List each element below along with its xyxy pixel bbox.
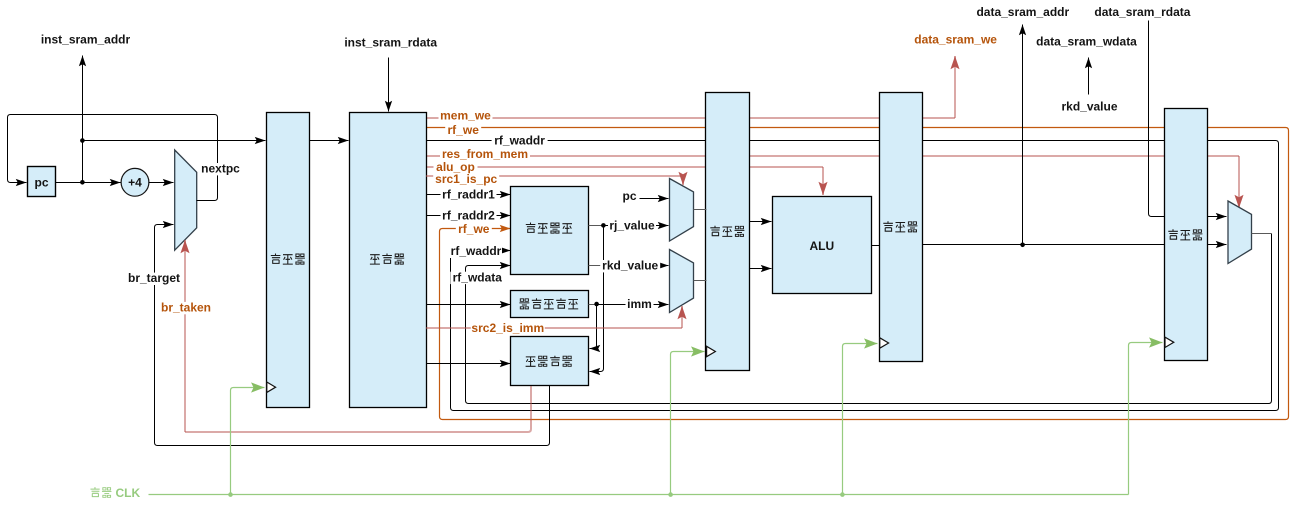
wire br_target into mux bbox=[155, 225, 550, 446]
svg-text:rf_waddr: rf_waddr bbox=[494, 134, 545, 148]
wire decoder to branch unit bbox=[427, 363, 511, 365]
svg-text:data_sram_wdata: data_sram_wdata bbox=[1036, 35, 1137, 49]
wire imm to mux src2 bbox=[589, 304, 598, 306]
node pc out junction bbox=[80, 180, 85, 185]
svg-text:res_from_mem: res_from_mem bbox=[442, 147, 528, 161]
wire clock to EX/MEM bbox=[843, 344, 878, 495]
label alu_op bbox=[434, 161, 478, 173]
label 寄存器堆 bbox=[526, 223, 573, 235]
decoder 解码器 bbox=[350, 113, 427, 408]
ALU bbox=[773, 197, 872, 294]
label nextpc bbox=[201, 163, 241, 175]
svg-text:src2_is_imm: src2_is_imm bbox=[471, 321, 544, 335]
register file 寄存器堆 bbox=[511, 187, 589, 275]
mux src1 bbox=[670, 179, 694, 242]
svg-text:br_target: br_target bbox=[128, 271, 180, 285]
wire br_taken into nextpc mux select bbox=[185, 386, 531, 432]
wire mux src1 out bbox=[694, 209, 707, 211]
register ID/EX 寄存器 bbox=[706, 93, 750, 371]
label mem_we bbox=[439, 110, 493, 122]
wire rkd_value labeled segment bbox=[601, 265, 669, 267]
wire rf_waddr loop: decoder to WB and back to regfile bbox=[427, 141, 1279, 411]
wire ALU result to EX/MEM bbox=[872, 245, 880, 247]
label 寄存器 ID/EX bbox=[710, 226, 744, 238]
svg-text:rf_raddr1: rf_raddr1 bbox=[442, 188, 495, 202]
node clock junction 2 bbox=[668, 492, 673, 497]
wire result mux out stub bbox=[1252, 233, 1272, 235]
svg-text:nextpc: nextpc bbox=[201, 162, 240, 176]
svg-text:rf_raddr2: rf_raddr2 bbox=[442, 209, 495, 223]
label 解码器 bbox=[370, 254, 404, 266]
label rf_raddr2 bbox=[441, 210, 497, 222]
wire imm labeled segment bbox=[597, 304, 669, 306]
label rf_we bbox=[445, 124, 481, 136]
node clock junction 1 bbox=[228, 492, 233, 497]
wire decoder to imm extender bbox=[427, 304, 511, 306]
label imm bbox=[626, 299, 654, 311]
wire rf_raddr1 bbox=[427, 194, 511, 196]
wire inst_sram_rdata into decoder bbox=[388, 58, 390, 112]
label rj_value bbox=[608, 220, 656, 232]
svg-text:rf_we: rf_we bbox=[458, 222, 490, 236]
svg-text:rf_wdata: rf_wdata bbox=[453, 270, 503, 284]
mux final result bbox=[1228, 201, 1252, 264]
svg-text:data_sram_addr: data_sram_addr bbox=[976, 5, 1069, 19]
wire ID/EX to ALU input a bbox=[750, 221, 772, 223]
label src2_is_imm bbox=[471, 323, 545, 335]
svg-text:data_sram_rdata: data_sram_rdata bbox=[1094, 5, 1190, 19]
+4 adder bbox=[121, 168, 149, 196]
svg-text:rj_value: rj_value bbox=[609, 219, 655, 233]
wire rf_we loop decoder to WB and back to regfile bbox=[427, 128, 1289, 420]
wire mem_we / data_sram_we bbox=[426, 117, 955, 119]
label rf_waddr bbox=[492, 135, 548, 147]
wire rkd_value to data_sram_wdata stub bbox=[1088, 58, 1090, 95]
wire rf_wdata loop from result mux back to regfile bbox=[466, 234, 1272, 404]
svg-text:rf_waddr: rf_waddr bbox=[451, 244, 502, 258]
label rkd_value bbox=[600, 260, 660, 272]
wire EX/MEM result to MEM/WB bbox=[923, 244, 1165, 246]
svg-text:inst_sram_rdata: inst_sram_rdata bbox=[344, 35, 437, 49]
node addr branch junction bbox=[80, 138, 85, 143]
label 时钟CLK bbox=[90, 487, 111, 498]
wire pc to +4 bbox=[56, 182, 121, 184]
wire src1_is_pc into mux src1 select bbox=[426, 175, 683, 177]
wire rf_raddr2 bbox=[427, 215, 511, 217]
wire clock main line bbox=[149, 494, 1129, 496]
label rf_raddr1 bbox=[441, 189, 497, 201]
register MEM/WB 寄存器 bbox=[1165, 109, 1208, 361]
label rf_wdata bbox=[450, 272, 504, 284]
clock pin ID/EX bbox=[707, 346, 716, 356]
label 跳转处理 bbox=[526, 356, 573, 368]
svg-text:CLK: CLK bbox=[116, 486, 141, 500]
wire IF/ID to decoder bbox=[310, 140, 349, 142]
wire alu_op down into ALU bbox=[426, 166, 823, 168]
register IF/ID 寄存器 bbox=[267, 113, 310, 408]
wire nextpc feedback loop to pc bbox=[8, 115, 218, 201]
label rf_we near regfile bbox=[456, 224, 492, 236]
svg-text:br_taken: br_taken bbox=[161, 301, 211, 315]
clock pin EX/MEM bbox=[880, 338, 889, 348]
pc register box bbox=[28, 167, 56, 197]
label 寄存器 MEM/WB bbox=[1168, 229, 1202, 241]
wire mux src2 out bbox=[694, 280, 707, 282]
wire pc stub into mux src1 bbox=[640, 198, 669, 200]
svg-text:inst_sram_addr: inst_sram_addr bbox=[41, 33, 131, 47]
wire imm branch down to branch unit bbox=[590, 305, 597, 349]
node rj_value junction bbox=[601, 223, 606, 228]
svg-text:mem_we: mem_we bbox=[440, 108, 491, 122]
wire +4 to mux bbox=[149, 182, 174, 184]
wire data_sram_addr up bbox=[1022, 25, 1024, 245]
wire rj_value labeled segment bbox=[604, 225, 669, 227]
svg-text:data_sram_we: data_sram_we bbox=[914, 32, 997, 46]
svg-text:imm: imm bbox=[627, 297, 652, 311]
label 立即数扩展 bbox=[519, 298, 578, 310]
label br_target bbox=[128, 273, 180, 285]
svg-text:rf_we: rf_we bbox=[448, 123, 480, 137]
svg-text:src1_is_pc: src1_is_pc bbox=[435, 172, 497, 186]
node data_sram_addr junction bbox=[1020, 243, 1025, 248]
wire src2_is_imm into mux src2 select bbox=[426, 327, 682, 329]
svg-text:+4: +4 bbox=[128, 176, 142, 190]
svg-text:pc: pc bbox=[622, 189, 636, 203]
label 寄存器 IF/ID bbox=[271, 254, 305, 266]
wire MEM/WB to result mux top input bbox=[1208, 216, 1227, 218]
wire rj_value to mux src1 bbox=[589, 225, 605, 227]
node clock junction 3 bbox=[840, 492, 845, 497]
svg-text:ALU: ALU bbox=[809, 239, 834, 253]
branch unit 跳转处理 bbox=[511, 337, 589, 386]
clock pin IF/ID bbox=[267, 382, 276, 392]
svg-text:rkd_value: rkd_value bbox=[1061, 100, 1117, 114]
label src1_is_pc bbox=[433, 173, 499, 185]
label br_taken bbox=[161, 302, 211, 314]
clock pin MEM/WB bbox=[1165, 337, 1174, 347]
wire res_from_mem to result mux select bbox=[426, 155, 1239, 157]
wire data_sram_rdata down into MEM/WB bbox=[1149, 21, 1165, 217]
wire inst_sram_addr up bbox=[82, 56, 84, 183]
wire rkd_value to mux src2 bbox=[589, 265, 602, 267]
wire rj_value branch down to branch unit bbox=[590, 226, 604, 372]
register EX/MEM 寄存器 bbox=[880, 93, 923, 362]
svg-text:pc: pc bbox=[34, 175, 48, 189]
node imm junction bbox=[594, 302, 599, 307]
wire clock to ID/EX bbox=[671, 352, 705, 495]
mux src2 bbox=[670, 250, 694, 313]
wire clock to IF/ID bbox=[231, 388, 265, 495]
label 寄存器 EX/MEM bbox=[883, 221, 917, 233]
wire MEM/WB to result mux bottom input bbox=[1208, 244, 1227, 246]
mux nextpc bbox=[175, 150, 197, 250]
wire ID/EX to ALU input b bbox=[750, 268, 772, 270]
wire clock to MEM/WB bbox=[1129, 343, 1163, 495]
label rf_waddr near regfile bbox=[450, 246, 502, 258]
immediate extender 立即数扩展 bbox=[511, 291, 589, 318]
wire pc value to IF/ID register bbox=[83, 140, 266, 142]
label res_from_mem bbox=[440, 148, 530, 160]
svg-text:rkd_value: rkd_value bbox=[602, 259, 658, 273]
